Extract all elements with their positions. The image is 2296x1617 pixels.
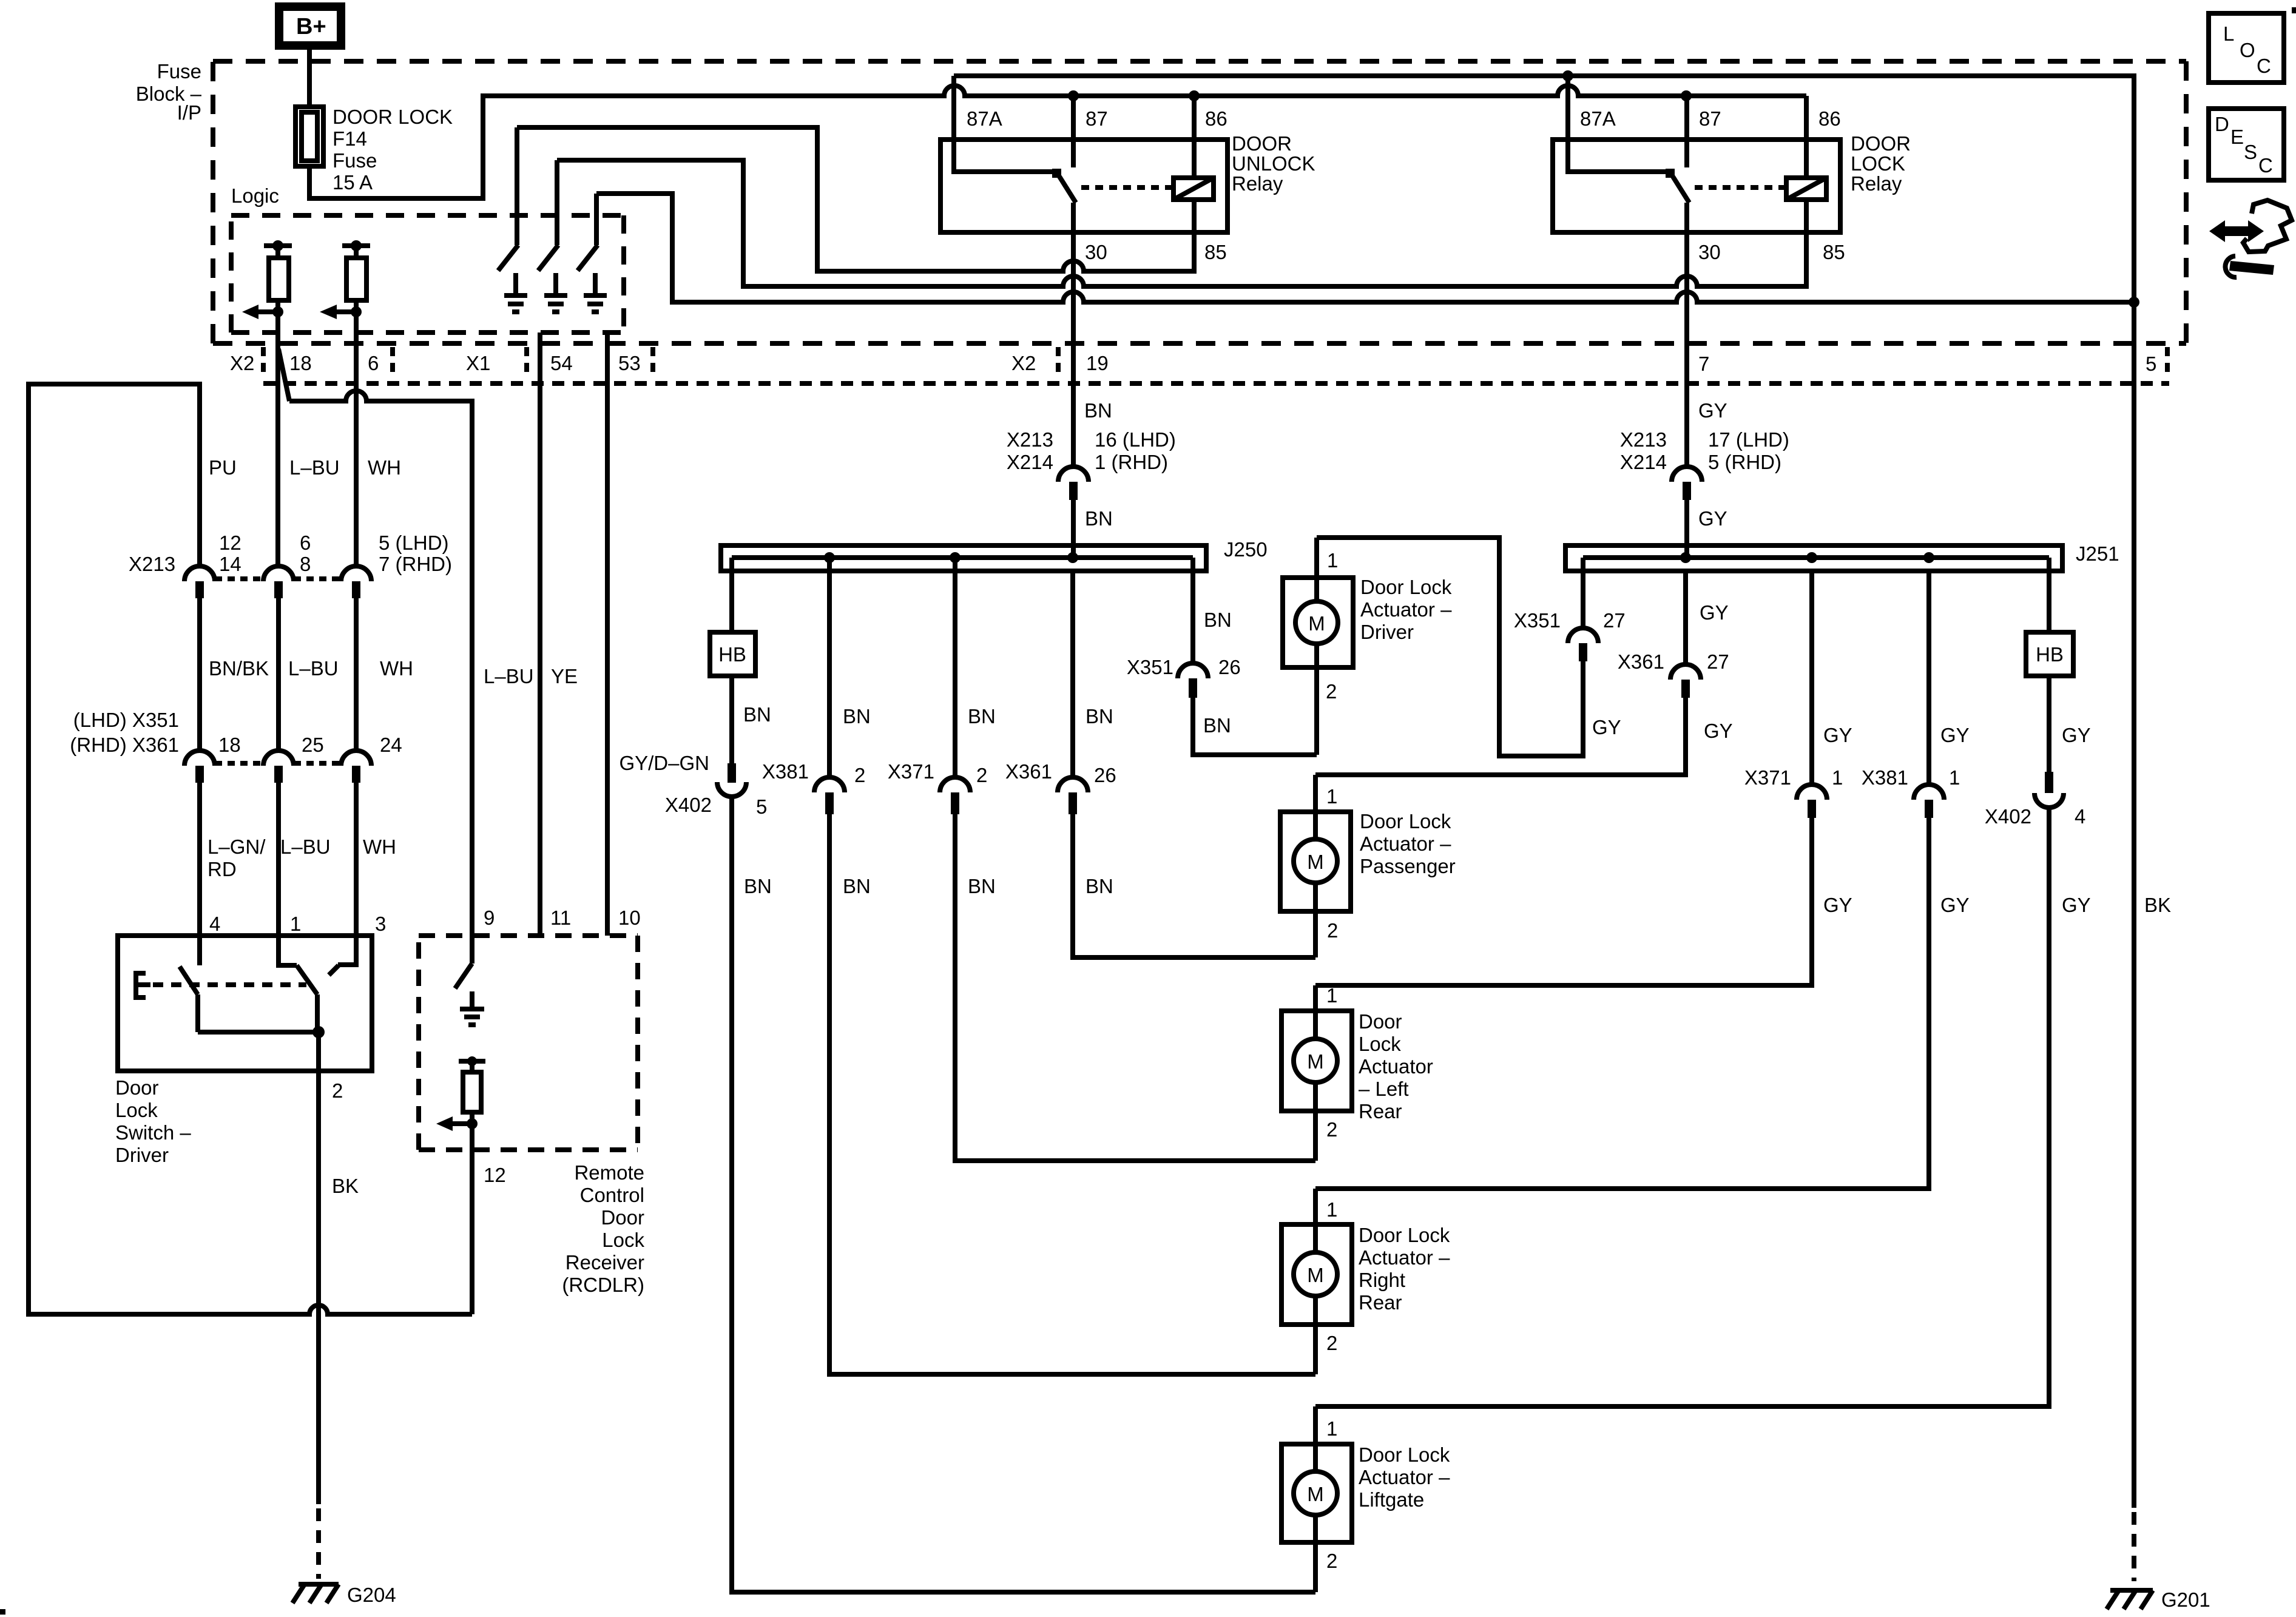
relay U1 blade: [1059, 177, 1076, 203]
connector X361 pin27: [1670, 664, 1701, 680]
svg-text:X2: X2: [1011, 352, 1036, 374]
wire J250 tap2 to X371-2 and left-rear pin2: [955, 558, 1315, 1161]
svg-text:GY: GY: [1823, 724, 1852, 746]
ground G201: [2107, 1590, 2153, 1609]
svg-text:C: C: [2258, 154, 2273, 177]
diagnostic icon outline: [2243, 200, 2292, 252]
RCDLR dashed box: [419, 936, 638, 1150]
svg-text:Passenger: Passenger: [1360, 855, 1456, 877]
svg-text:X2: X2: [230, 352, 254, 374]
connector row separators: [263, 347, 2167, 377]
svg-text:Lock: Lock: [602, 1229, 644, 1251]
relay U1 pin 30 wire: [1071, 203, 1076, 467]
svg-text:Actuator: Actuator: [1359, 1055, 1433, 1078]
svg-text:85: 85: [1204, 241, 1227, 263]
wire J251 tap3 to X381-1 and right-rear pin1: [1315, 571, 1929, 1189]
svg-text:18: 18: [289, 352, 312, 374]
wire pin53: [605, 333, 610, 936]
connector X351 pin26: [1178, 663, 1208, 678]
svg-text:WH: WH: [368, 456, 401, 479]
svg-text:HB: HB: [2036, 643, 2064, 666]
svg-text:UNLOCK: UNLOCK: [1232, 152, 1315, 175]
door lock actuator liftgate: [1281, 1444, 1352, 1542]
svg-text:Rear: Rear: [1359, 1291, 1402, 1314]
svg-text:5: 5: [756, 795, 767, 818]
svg-text:GY: GY: [1698, 399, 1727, 422]
svg-text:12: 12: [219, 532, 241, 554]
switch contact L-BU and blade 2: [279, 936, 317, 1032]
wire switch line C to right edge (hops): [596, 194, 2134, 302]
svg-text:54: 54: [550, 352, 573, 374]
svg-text:BK: BK: [2144, 894, 2171, 916]
svg-text:5 (LHD): 5 (LHD): [379, 532, 449, 554]
svg-text:BN: BN: [968, 875, 996, 897]
svg-text:M: M: [1308, 612, 1325, 635]
svg-text:Control: Control: [580, 1184, 644, 1206]
svg-text:X213: X213: [129, 553, 175, 575]
svg-text:Rear: Rear: [1359, 1100, 1402, 1122]
relay U2 pin 87A wire: [1568, 76, 1669, 172]
svg-text:1: 1: [1832, 766, 1843, 789]
relay U2 pivot: [1666, 169, 1675, 178]
node J251 tap 2: [1806, 552, 1817, 563]
svg-text:Door Lock: Door Lock: [1359, 1443, 1450, 1466]
wire relay2 pin30 GY to J251: [1684, 500, 1689, 558]
svg-text:30: 30: [1085, 241, 1107, 263]
svg-text:87: 87: [1699, 107, 1721, 130]
door lock actuator left rear: [1281, 1011, 1352, 1111]
svg-text:BN: BN: [1086, 875, 1113, 897]
svg-text:Actuator –: Actuator –: [1359, 1246, 1450, 1269]
svg-text:87: 87: [1086, 107, 1108, 130]
svg-text:1: 1: [290, 913, 301, 935]
battery feed B+: [275, 2, 345, 50]
svg-text:BN: BN: [744, 875, 772, 897]
svg-text:85: 85: [1823, 241, 1845, 263]
svg-text:11: 11: [550, 906, 571, 929]
wire fuse output to relays (line y=158 with hops over 87A wires): [309, 86, 1806, 198]
wire relay1 pin30 BN to J250: [1071, 500, 1076, 558]
svg-text:12: 12: [484, 1164, 506, 1186]
svg-text:BN: BN: [1085, 507, 1113, 530]
wire BK dashed tail: [2132, 1512, 2136, 1581]
svg-text:Lock: Lock: [115, 1099, 158, 1121]
node switch common: [312, 1026, 325, 1038]
svg-text:J251: J251: [2076, 542, 2119, 565]
svg-text:Fuse: Fuse: [157, 60, 201, 83]
svg-text:14: 14: [219, 553, 241, 575]
svg-text:DOOR: DOOR: [1851, 132, 1911, 155]
svg-text:Door Lock: Door Lock: [1359, 1224, 1450, 1246]
wire J251 inner-right to HB and X402-4 and liftgate pin1: [1315, 558, 2049, 1406]
relay U1 coil link dashed: [1081, 185, 1173, 190]
svg-text:1: 1: [1327, 549, 1338, 572]
svg-text:86: 86: [1205, 107, 1227, 130]
svg-text:2: 2: [854, 764, 865, 786]
svg-text:17 (LHD): 17 (LHD): [1708, 428, 1789, 451]
junction block J250: [721, 545, 1206, 571]
svg-text:2: 2: [1327, 919, 1338, 942]
svg-text:C: C: [2257, 55, 2271, 77]
connector X351/X361 arcs row: [184, 751, 371, 766]
svg-text:(LHD) X351: (LHD) X351: [73, 709, 179, 731]
svg-text:53: 53: [618, 352, 641, 374]
svg-text:4: 4: [209, 913, 220, 935]
svg-text:GY: GY: [1823, 894, 1852, 916]
wire pin18 L-BU column with branch to RCDLR pin 9 (hop over WH wire): [278, 312, 472, 936]
relay U1 coil: [1173, 178, 1214, 200]
svg-text:86: 86: [1818, 107, 1841, 130]
svg-text:BN: BN: [1204, 609, 1232, 631]
svg-text:GY: GY: [2062, 894, 2091, 916]
svg-text:Receiver: Receiver: [566, 1251, 644, 1274]
svg-text:X1: X1: [466, 352, 490, 374]
svg-text:M: M: [1307, 1050, 1324, 1073]
connector X213/X214 inline (GY): [1672, 467, 1702, 482]
svg-text:X213: X213: [1620, 428, 1667, 451]
wire RCDLR pin12 loop to X213 pin12 (hop over BK wire): [29, 384, 472, 1314]
svg-text:YE: YE: [551, 665, 578, 687]
svg-text:Switch –: Switch –: [115, 1121, 191, 1144]
svg-text:X402: X402: [1985, 805, 2031, 828]
svg-text:BN: BN: [843, 875, 871, 897]
logic box dashed border: [231, 215, 624, 333]
svg-text:4: 4: [2075, 805, 2085, 828]
node 86 relay1: [1189, 90, 1200, 101]
svg-text:Actuator –: Actuator –: [1360, 832, 1451, 855]
svg-text:30: 30: [1698, 241, 1721, 263]
svg-text:Relay: Relay: [1232, 172, 1283, 195]
wire pin54 YE: [538, 333, 542, 936]
relay U1 pin 87A wire: [954, 76, 1055, 172]
connector X371 pin1: [1797, 785, 1827, 800]
connector X402 pin5: [728, 763, 736, 783]
node J251 tap 1: [1680, 552, 1691, 563]
svg-text:18: 18: [218, 734, 241, 756]
resistor (RCDLR): [459, 1061, 485, 1072]
svg-text:L–GN/: L–GN/: [208, 836, 266, 858]
svg-text:1: 1: [1326, 785, 1337, 808]
connector row dotted line: [263, 381, 2169, 386]
svg-text:Door Lock: Door Lock: [1360, 810, 1451, 832]
wire bus top (B+ line y=125) to right edge BK wire: [954, 76, 2134, 1508]
svg-text:RD: RD: [208, 858, 237, 880]
svg-text:Liftgate: Liftgate: [1359, 1488, 1424, 1511]
stray dot bottom left: [0, 1609, 5, 1615]
wire pin6 WH column: [354, 312, 359, 565]
ground G204: [292, 1584, 339, 1603]
svg-text:F14: F14: [333, 127, 367, 150]
svg-text:O: O: [2240, 39, 2255, 61]
svg-text:Driver: Driver: [1360, 621, 1414, 643]
resistor R2 (logic): [342, 246, 370, 258]
svg-text:2: 2: [1326, 680, 1337, 703]
svg-text:87A: 87A: [1580, 107, 1616, 130]
svg-text:Right: Right: [1359, 1269, 1405, 1291]
svg-text:Actuator –: Actuator –: [1359, 1466, 1450, 1488]
svg-text:M: M: [1307, 1264, 1324, 1286]
stray dot top right: [2292, 7, 2296, 13]
svg-text:X214: X214: [1007, 451, 1053, 473]
svg-text:DOOR: DOOR: [1232, 132, 1292, 155]
relay U2 blade: [1673, 177, 1689, 203]
svg-text:2: 2: [1326, 1332, 1337, 1354]
wire J250 tap1 to X381-2 and right-rear pin2: [829, 558, 1315, 1374]
wire J250 to HB (GY/D-GN) and liftgate pin2: [732, 558, 1315, 1592]
svg-text:26: 26: [1218, 656, 1241, 678]
svg-text:GY: GY: [1698, 507, 1727, 530]
svg-text:27: 27: [1707, 650, 1729, 673]
svg-text:2: 2: [1326, 1118, 1337, 1141]
relay U1 pin 86 wire: [1192, 96, 1197, 178]
connector X361 pin26: [1058, 777, 1088, 792]
svg-text:Fuse: Fuse: [333, 149, 377, 172]
svg-text:2: 2: [1326, 1550, 1337, 1572]
svg-text:WH: WH: [380, 657, 413, 680]
svg-text:BN: BN: [1086, 705, 1113, 727]
svg-text:(RHD) X361: (RHD) X361: [70, 734, 179, 756]
relay U2 pin 87 wire: [1684, 96, 1689, 167]
svg-text:S: S: [2244, 141, 2257, 163]
svg-text:X371: X371: [1744, 766, 1791, 789]
svg-text:8: 8: [300, 553, 311, 575]
svg-text:L: L: [2223, 22, 2234, 45]
svg-text:X371: X371: [888, 760, 934, 783]
svg-text:GY: GY: [1704, 720, 1733, 742]
connector X351 pin27: [1568, 628, 1598, 643]
relay U2 DOOR LOCK box: [1553, 140, 1840, 232]
svg-text:BN: BN: [843, 705, 871, 727]
switch blade 1: [180, 967, 319, 1032]
relay U2 coil: [1786, 178, 1826, 200]
svg-text:X381: X381: [1862, 766, 1908, 789]
svg-text:– Left: – Left: [1359, 1078, 1409, 1100]
relay U2 pin 86 wire: [1804, 96, 1809, 178]
svg-text:G201: G201: [2161, 1588, 2210, 1611]
switch contact WH: [329, 936, 356, 975]
svg-text:6: 6: [300, 532, 311, 554]
wire J251 inner-left to X351-27 and driver pin1: [1317, 538, 1583, 756]
logic switch S2: [538, 160, 567, 312]
svg-text:PU: PU: [209, 456, 237, 479]
diagnostic icon arrow: [2209, 220, 2264, 242]
svg-text:GY/D–GN: GY/D–GN: [619, 752, 709, 774]
junction block J251: [1565, 545, 2062, 571]
svg-text:BK: BK: [332, 1175, 359, 1197]
splice HB (left): [710, 632, 755, 676]
svg-text:M: M: [1307, 851, 1324, 873]
svg-text:DOOR LOCK: DOOR LOCK: [333, 106, 453, 128]
svg-text:BN/BK: BN/BK: [209, 657, 269, 680]
door lock actuator passenger: [1280, 812, 1351, 911]
door lock actuator right rear: [1281, 1224, 1352, 1325]
svg-text:26: 26: [1094, 764, 1116, 786]
connector X371 pin2: [940, 777, 970, 792]
svg-text:Door: Door: [115, 1076, 159, 1099]
svg-text:I/P: I/P: [177, 101, 201, 124]
svg-text:Actuator –: Actuator –: [1360, 598, 1452, 621]
svg-text:D: D: [2215, 113, 2229, 135]
svg-text:WH: WH: [363, 836, 396, 858]
svg-text:1: 1: [1326, 1417, 1337, 1440]
door lock actuator driver: [1283, 578, 1353, 667]
svg-text:L–BU: L–BU: [288, 657, 339, 680]
relay U2 pin 30 wire: [1684, 203, 1689, 467]
wire switch line B to relay2 pin85 (hops): [557, 160, 1806, 286]
connector X213 arcs row: [184, 566, 371, 581]
svg-text:B+: B+: [296, 14, 326, 39]
connector X381 pin2: [814, 777, 845, 792]
svg-text:GY: GY: [1592, 716, 1621, 738]
wire J250 inner-right to X351-26 and driver pin2: [1193, 558, 1317, 755]
wire B+ to fuse: [307, 50, 312, 107]
connector X213/X214 inline (BN): [1058, 467, 1089, 482]
svg-text:25: 25: [302, 734, 324, 756]
svg-text:Logic: Logic: [231, 184, 279, 207]
svg-text:Door: Door: [601, 1206, 644, 1229]
svg-text:Driver: Driver: [115, 1144, 169, 1166]
switch mechanical bracket: [136, 973, 150, 998]
node 87 relay1: [1068, 90, 1079, 101]
svg-text:2: 2: [332, 1079, 343, 1102]
svg-text:X381: X381: [762, 760, 809, 783]
svg-text:9: 9: [484, 906, 495, 929]
logic switch S1: [498, 127, 527, 312]
relay U2 coil link dashed: [1695, 185, 1786, 190]
relay U1 pin 87 wire: [1071, 96, 1076, 167]
fuse F14 DOOR LOCK 15A: [295, 107, 323, 166]
fuse block dashed border: [213, 61, 2186, 343]
svg-text:X361: X361: [1005, 760, 1052, 783]
wire J251 tap2 to X371-1 and left-rear pin1: [1315, 571, 1812, 985]
svg-text:GY: GY: [1940, 894, 1970, 916]
svg-text:Remote: Remote: [574, 1161, 644, 1184]
wire J251 tap1 to X361-27 and passenger pin1: [1315, 571, 1686, 775]
connector X381 pin1: [1914, 785, 1944, 800]
relay U1 pivot: [1052, 169, 1061, 178]
wire switch line A to relay1 pin85 (hop over 30 wire): [517, 127, 1194, 271]
splice HB (right): [2026, 632, 2073, 676]
svg-text:GY: GY: [2062, 724, 2091, 746]
svg-text:15 A: 15 A: [333, 171, 373, 194]
svg-text:3: 3: [375, 913, 386, 935]
svg-text:X351: X351: [1514, 609, 1561, 632]
svg-text:19: 19: [1086, 352, 1109, 374]
svg-text:X402: X402: [665, 794, 712, 816]
svg-text:1 (RHD): 1 (RHD): [1095, 451, 1168, 473]
svg-text:BN: BN: [743, 703, 771, 726]
node line C joins BK wire: [2129, 297, 2139, 308]
wire J250 tap3 to X361-26 and passenger pin2: [1073, 571, 1315, 957]
svg-text:X351: X351: [1127, 656, 1173, 678]
svg-text:GY: GY: [1940, 724, 1970, 746]
svg-text:2: 2: [976, 764, 987, 786]
node J250 tap 1: [824, 552, 835, 563]
wires X213 to X351 row: [200, 598, 356, 750]
svg-text:LOCK: LOCK: [1851, 152, 1905, 175]
svg-text:BN: BN: [1203, 714, 1231, 737]
connector X402 pin4: [2045, 772, 2053, 793]
legend box DESC: [2209, 109, 2284, 180]
svg-text:(RCDLR): (RCDLR): [562, 1274, 644, 1296]
svg-text:BN: BN: [1084, 399, 1112, 422]
relay U1 DOOR UNLOCK box: [940, 140, 1227, 232]
svg-text:HB: HB: [718, 643, 746, 666]
arrow (RCDLR): [453, 1121, 472, 1126]
node J250 tap 3: [1067, 552, 1078, 563]
RCDLR pin 9 wire and switch: [455, 936, 472, 988]
node 87 relay2: [1681, 90, 1692, 101]
svg-text:GY: GY: [1700, 601, 1729, 624]
node J251 tap 3: [1923, 552, 1934, 563]
svg-text:G204: G204: [347, 1584, 396, 1606]
resistor R1 (logic): [264, 246, 292, 258]
svg-text:7: 7: [1698, 353, 1709, 375]
node 87A relay2: [1562, 70, 1573, 81]
svg-text:5 (RHD): 5 (RHD): [1708, 451, 1781, 473]
node J250 tap 2: [950, 552, 961, 563]
svg-text:J250: J250: [1224, 538, 1268, 561]
diagnostic icon wrench: [2229, 261, 2274, 275]
svg-text:16 (LHD): 16 (LHD): [1095, 428, 1176, 451]
wire switch pin2 BK to ground: [316, 1032, 321, 1504]
logic switch S3: [578, 194, 607, 312]
svg-text:7 (RHD): 7 (RHD): [379, 553, 452, 575]
svg-text:L–BU: L–BU: [289, 456, 340, 479]
door lock switch driver box: [118, 936, 372, 1071]
svg-text:E: E: [2230, 126, 2244, 148]
svg-text:X214: X214: [1620, 451, 1667, 473]
svg-text:L–BU: L–BU: [484, 665, 534, 687]
svg-text:X213: X213: [1007, 428, 1053, 451]
svg-text:6: 6: [368, 352, 379, 374]
svg-text:5: 5: [2146, 353, 2156, 375]
switch contact PU: [197, 936, 202, 965]
svg-text:24: 24: [380, 734, 402, 756]
svg-text:Door Lock: Door Lock: [1360, 576, 1452, 598]
svg-text:Door: Door: [1359, 1010, 1402, 1033]
svg-text:L–BU: L–BU: [280, 836, 331, 858]
svg-text:BN: BN: [968, 705, 996, 727]
legend box LOC: [2209, 13, 2284, 83]
ground (RCDLR): [460, 991, 484, 1025]
svg-text:87A: 87A: [967, 107, 1002, 130]
arrow at R2: [337, 309, 356, 314]
svg-text:10: 10: [618, 906, 641, 929]
switch link dashed: [153, 982, 306, 987]
svg-text:1: 1: [1949, 766, 1960, 789]
svg-text:1: 1: [1326, 1198, 1337, 1221]
svg-text:1: 1: [1326, 984, 1337, 1007]
wires X351 row to switch: [200, 783, 356, 936]
svg-text:X361: X361: [1618, 650, 1664, 673]
svg-text:Relay: Relay: [1851, 172, 1902, 195]
svg-text:M: M: [1307, 1483, 1324, 1505]
svg-text:27: 27: [1603, 609, 1626, 632]
arrow at R1: [258, 309, 278, 314]
svg-text:Lock: Lock: [1359, 1033, 1401, 1055]
